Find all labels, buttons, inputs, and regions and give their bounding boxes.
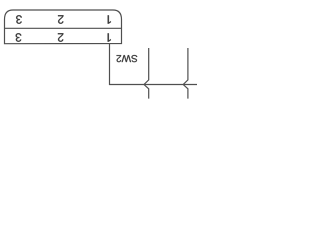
switch SW2 body divider line (5, 27, 122, 29)
refdes label SW2 (117, 55, 138, 62)
pin number 3 bottom row (16, 33, 22, 42)
pin number 2 top row (58, 15, 63, 23)
wire pin 1 stub vertical (109, 44, 111, 85)
pin number 1 bottom row (108, 33, 111, 41)
wire vertical net A with crossover hop (144, 48, 148, 99)
wire vertical net B with crossover hop (184, 48, 188, 99)
wire horizontal net segment (109, 84, 197, 86)
switch SW2 body outline (symbol rotated 180deg) (5, 10, 122, 44)
pin number 3 top row (16, 15, 22, 24)
pin number 2 bottom row (58, 33, 63, 41)
pin number 1 top row (108, 15, 111, 23)
